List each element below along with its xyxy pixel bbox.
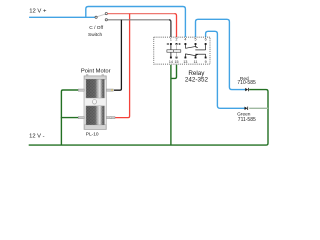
relay coil polarity arrows xyxy=(166,43,181,45)
wire dark green relay pin 14 to 12V- rail xyxy=(170,65,172,145)
wire dark green relay pin 15 joining pin 14 wire xyxy=(171,65,177,79)
LED green 711-585 xyxy=(245,107,248,110)
wire blue relay pin 6 to green LED xyxy=(206,31,245,108)
svg-text:4: 4 xyxy=(184,38,186,42)
svg-text:12 V +: 12 V + xyxy=(29,8,47,14)
svg-text:2: 2 xyxy=(176,38,178,42)
wire red corner down into relay pin 2 xyxy=(175,14,177,37)
wire dark green point motor common to 12V- rail xyxy=(61,90,79,145)
wire sage green from green LED to right rail xyxy=(249,107,268,109)
svg-text:11: 11 xyxy=(194,60,198,64)
relay contact pole A (pins 4-5-6) xyxy=(185,44,205,50)
relay pins bottom row xyxy=(170,57,207,59)
relay coil box xyxy=(167,50,181,52)
wire 12V+ blue feed to switch common xyxy=(29,16,95,18)
switch throw contact circle upper xyxy=(105,13,107,15)
point motor lower coil xyxy=(86,106,104,125)
relay pin numbers top row xyxy=(170,38,207,42)
wire red branch down to point motor lower coil xyxy=(115,14,130,118)
wire black branch down to point motor upper coil xyxy=(114,20,121,90)
svg-text:9: 9 xyxy=(205,60,207,64)
svg-text:242-352: 242-352 xyxy=(185,76,209,83)
point motor upper coil xyxy=(86,79,104,98)
wire blue relay pin 5 to red LED xyxy=(196,19,246,89)
wire dark green from red LED to 12V- rail (right side + bottom rail) xyxy=(29,90,268,146)
wire black from switch lower throw to relay pin 1 (horizontal run) xyxy=(107,19,168,21)
relay 242-352 outline box xyxy=(154,37,210,64)
point motor armature D mark xyxy=(93,100,97,105)
point motor terminal tabs xyxy=(78,89,115,119)
svg-text:13: 13 xyxy=(183,60,187,64)
switch throw contact circle lower xyxy=(105,19,107,21)
LED red 710-585 xyxy=(245,88,248,91)
svg-text:6: 6 xyxy=(205,38,207,42)
wire black corner down into relay pin 1 xyxy=(169,20,171,37)
relay coil wire pin 1 to 14 xyxy=(170,44,172,58)
switch C/Off lever xyxy=(97,14,106,17)
svg-text:PL-10: PL-10 xyxy=(86,132,99,138)
wire red from switch upper throw to relay pin 2 (horizontal run) xyxy=(107,13,174,15)
relay contact pole B (pins 13-11-9) xyxy=(185,54,205,58)
svg-text:15: 15 xyxy=(175,60,179,64)
svg-text:1: 1 xyxy=(170,38,172,42)
switch common contact circle xyxy=(95,16,97,18)
wire blue 12V+ rail riser and top rail to relay pin 4 xyxy=(86,7,186,38)
relay pin numbers bottom row xyxy=(169,60,207,64)
wire dark green stub to motor lower coil xyxy=(61,117,79,119)
svg-text:Switch: Switch xyxy=(88,32,102,38)
svg-text:C / Off: C / Off xyxy=(89,25,103,31)
svg-text:Point Motor: Point Motor xyxy=(81,68,111,74)
relay coil wire pin 2 to 15 xyxy=(176,44,178,58)
svg-text:12 V -: 12 V - xyxy=(29,134,45,140)
svg-text:711-585: 711-585 xyxy=(238,117,256,123)
svg-text:14: 14 xyxy=(169,60,173,64)
point motor PL-10 body xyxy=(84,75,106,130)
relay pins top row xyxy=(170,43,207,45)
svg-text:710-585: 710-585 xyxy=(237,80,256,86)
svg-text:5: 5 xyxy=(195,38,197,42)
